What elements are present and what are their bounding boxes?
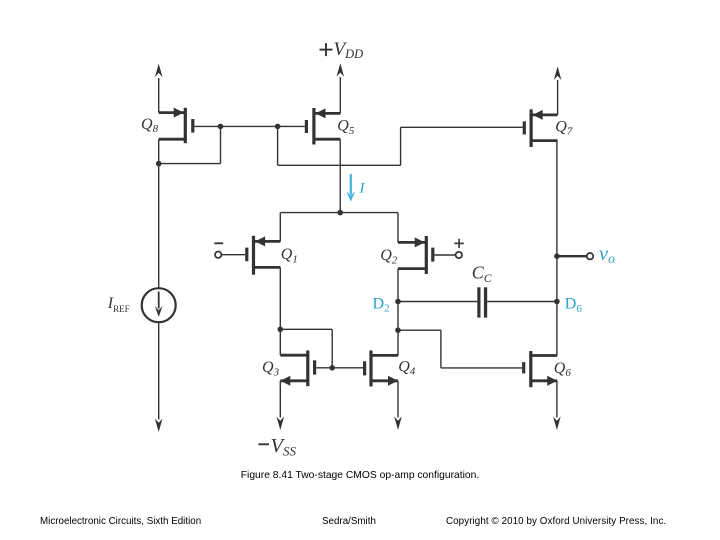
wire: D2 to Q6-gate (horizontal top) xyxy=(398,329,441,331)
+VDD supply arrow (Q5 branch) xyxy=(337,63,345,113)
svg-text:Q2: Q2 xyxy=(380,247,398,266)
svg-text:vo: vo xyxy=(599,243,615,266)
-VSS supply arrow (Q4 branch) xyxy=(394,381,402,430)
transistor Q7 (PMOS output current source) xyxy=(523,109,558,147)
output terminal xyxy=(587,253,593,259)
wire: Q1 drain down to Q3 xyxy=(279,267,281,355)
wire: jog to Q6 gate xyxy=(441,367,522,369)
wire: Q8 gate to Q5 gate bus xyxy=(194,125,304,127)
node: D2 branch to Q6 gate xyxy=(395,327,401,333)
svg-text:VDD: VDD xyxy=(334,39,364,61)
wire: rail down to Q2 source xyxy=(397,213,399,243)
+VDD supply arrow (Q7 branch) xyxy=(554,67,562,115)
+VDD supply arrow (Q8 branch) xyxy=(155,64,163,113)
node: tail junction xyxy=(337,210,343,216)
-VSS supply arrow (Q6 branch) xyxy=(553,381,561,430)
node: Q8 drain / IREF node xyxy=(156,161,162,167)
svg-text:VSS: VSS xyxy=(271,435,297,459)
node: Q1/Q3 drain junction xyxy=(278,327,284,333)
node: Q8 gate-drain tie xyxy=(218,124,224,130)
wire: Q3 gate tie (vertical) xyxy=(331,329,333,368)
wire: Q8 gate tie (vertical) xyxy=(220,126,222,163)
node: Q3 gate junction xyxy=(329,365,335,371)
input terminal minus xyxy=(214,243,223,258)
wire: rail down to Q1 source xyxy=(279,213,281,242)
wire: diff-pair source rail xyxy=(280,212,398,214)
transistor Q6 (NMOS output stage) xyxy=(522,351,557,387)
negative supply arrow (IREF branch) xyxy=(155,419,163,433)
figure caption xyxy=(0,470,720,481)
wire: Q5 drain to diff-pair tail xyxy=(339,139,341,212)
wire: D2 to capacitor CC xyxy=(398,301,477,303)
label -VSS xyxy=(259,435,297,459)
transistor Q8 (PMOS, diode-connected) xyxy=(159,108,195,144)
label +VDD xyxy=(320,39,364,61)
transistor Q3 (NMOS mirror, diode-connected) xyxy=(280,350,316,386)
transistor Q4 (NMOS mirror output) xyxy=(363,350,398,386)
wire: Q7 drain to Q6 drain (output rail) xyxy=(556,141,558,356)
svg-text:Q5: Q5 xyxy=(337,118,355,137)
svg-text:CC: CC xyxy=(472,263,492,285)
wire: Q3 drain-gate tie (horizontal) xyxy=(280,328,332,330)
svg-text:Q3: Q3 xyxy=(262,359,280,378)
node: output junction xyxy=(554,253,560,259)
wire: capacitor CC to node D6 xyxy=(487,301,557,303)
wire: Q3 gate to Q4 gate xyxy=(316,367,363,369)
wire: Q2 gate to plus input xyxy=(434,254,455,256)
node: Q5 gate junction xyxy=(275,124,281,130)
-VSS supply arrow (Q3 branch) xyxy=(277,381,285,430)
wire: IREF to negative rail arrow xyxy=(158,322,160,419)
svg-text:D2: D2 xyxy=(373,295,390,314)
wire: output stub xyxy=(557,255,587,257)
svg-text:Q8: Q8 xyxy=(141,116,159,135)
node D6 xyxy=(554,299,560,305)
wire: D2 to Q6-gate (vertical jog) xyxy=(440,330,442,368)
svg-text:Q4: Q4 xyxy=(398,358,416,377)
svg-text:D6: D6 xyxy=(565,296,583,315)
svg-text:IREF: IREF xyxy=(107,295,130,314)
input terminal plus xyxy=(454,239,463,259)
wire: gate bus to Q7 gate xyxy=(401,126,523,128)
wire: gate bus jog up xyxy=(400,127,402,165)
capacitor CC xyxy=(477,287,487,317)
transistor Q1 (PMOS input, inverting) xyxy=(245,236,280,275)
current arrow I (cyan) xyxy=(346,174,355,202)
transistor Q5 (PMOS tail current source) xyxy=(305,108,341,145)
transistor Q2 (PMOS input, non-inverting) xyxy=(398,236,434,274)
wire: Q5 gate jog down xyxy=(277,126,279,165)
svg-text:I: I xyxy=(359,181,366,197)
wire: Q8 drain down-lead xyxy=(158,139,160,289)
svg-text:Q6: Q6 xyxy=(554,360,572,379)
wire: gate bus below Q5 xyxy=(278,164,401,166)
wire: minus input to Q1 gate xyxy=(221,254,245,256)
svg-text:Q7: Q7 xyxy=(555,118,573,137)
current source IREF xyxy=(142,288,176,322)
node D2 xyxy=(395,299,401,305)
wire: Q2 drain down to Q4 (node D2) xyxy=(397,269,399,356)
footer xyxy=(0,515,720,517)
svg-text:Q1: Q1 xyxy=(281,246,298,265)
wire: Q8 drain to gate tie (horizontal) xyxy=(159,163,221,165)
